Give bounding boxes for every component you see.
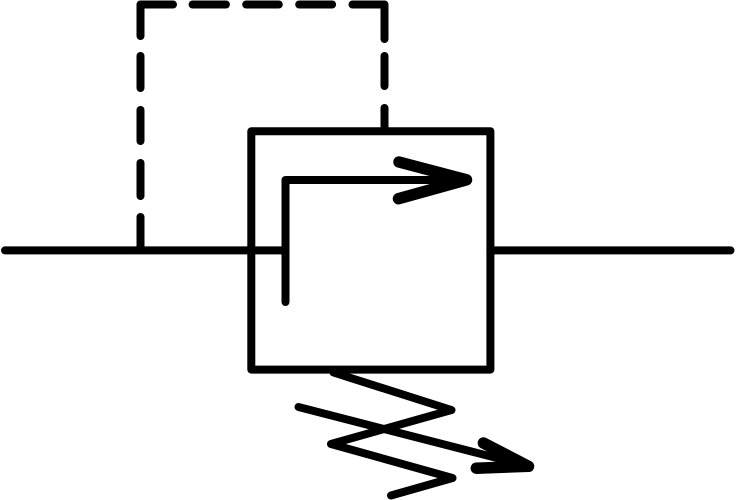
wire: main line left (inlet) — [5, 246, 286, 254]
adjustment arrowhead — [476, 443, 528, 468]
flow path arrowhead — [399, 162, 467, 199]
valve body V1 (square envelope) — [251, 131, 490, 369]
flow path arrow shaft inside valve — [286, 180, 465, 302]
adjustment arrow shaft (diagonal through spring) — [299, 407, 525, 465]
spring (zigzag) below valve — [331, 373, 453, 496]
pilot line (dashed) right vertical segment dashes — [381, 56, 389, 130]
wire: main line right (outlet) — [490, 246, 730, 254]
pilot line (dashed) top horizontal segment dashes — [193, 5, 385, 40]
pilot line (dashed) left vertical segment dashes — [141, 5, 174, 251]
